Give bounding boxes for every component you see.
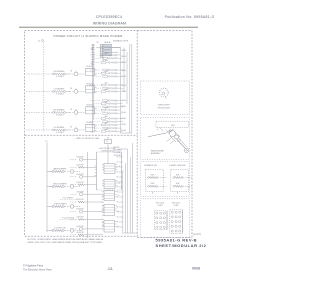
svg-text:W: W bbox=[117, 162, 119, 164]
svg-text:CONN: CONN bbox=[173, 205, 179, 207]
svg-text:4-6B: 4-6B bbox=[105, 129, 108, 131]
svg-text:P 4-6 BK-2: P 4-6 BK-2 bbox=[56, 115, 64, 117]
svg-text:P 4-6 BK-2: P 4-6 BK-2 bbox=[56, 94, 64, 96]
svg-text:DOOR SW: DOOR SW bbox=[76, 182, 84, 184]
svg-text:BK-1A: BK-1A bbox=[122, 111, 126, 114]
svg-text:SW BLOCK: SW BLOCK bbox=[86, 122, 93, 124]
svg-text:ASSEMBLY: ASSEMBLY bbox=[151, 152, 161, 155]
svg-text:[ A-0-5 ]: [ A-0-5 ] bbox=[193, 233, 202, 236]
svg-text:BK-1A: BK-1A bbox=[122, 90, 126, 93]
svg-text:K1: K1 bbox=[107, 137, 109, 139]
svg-text:W: W bbox=[117, 177, 119, 179]
svg-text:0608: 0608 bbox=[192, 266, 200, 270]
svg-text:4-6B: 4-6B bbox=[105, 123, 108, 125]
svg-text:CONV ELEMENT: CONV ELEMENT bbox=[53, 203, 66, 205]
svg-text:CONN: CONN bbox=[158, 205, 164, 207]
svg-text:POWER CIRCUIT (1 SHOWN) MADE P: POWER CIRCUIT (1 SHOWN) MADE POWER bbox=[54, 34, 124, 38]
svg-text:DOOR SW: DOOR SW bbox=[76, 217, 84, 219]
svg-text:W: W bbox=[117, 207, 119, 209]
svg-text:4-6B: 4-6B bbox=[105, 53, 108, 55]
svg-text:2B: 2B bbox=[70, 70, 72, 72]
svg-text:BK-1A: BK-1A bbox=[122, 117, 126, 120]
svg-text:V-VIOLET: V-VIOLET bbox=[114, 155, 122, 157]
svg-text:WIRE. USE ONLY 105°C APPLIANCE: WIRE. USE ONLY 105°C APPLIANCE WIRE OR E… bbox=[28, 241, 103, 244]
svg-text:BK-1A: BK-1A bbox=[122, 49, 126, 52]
svg-text:SURFACE UNITS: SURFACE UNITS bbox=[113, 39, 129, 42]
svg-text:BK-1A: BK-1A bbox=[122, 61, 126, 64]
svg-text:LR SURFACE: LR SURFACE bbox=[54, 126, 65, 129]
svg-text:4-6B: 4-6B bbox=[105, 60, 108, 62]
svg-text:BROIL ELEMENT: BROIL ELEMENT bbox=[53, 183, 66, 185]
svg-text:P/N 316116400: P/N 316116400 bbox=[158, 107, 170, 109]
svg-text:BK-1A: BK-1A bbox=[122, 69, 126, 72]
svg-text:B BK: B BK bbox=[176, 174, 179, 176]
svg-text:W: W bbox=[117, 192, 119, 194]
svg-text:DOOR SW: DOOR SW bbox=[76, 226, 84, 228]
svg-text:J3: J3 bbox=[118, 195, 120, 197]
svg-text:BK-1A: BK-1A bbox=[122, 75, 126, 78]
svg-text:DOOR SW: DOOR SW bbox=[76, 174, 84, 176]
svg-text:SHEET/MODULAR 2/2: SHEET/MODULAR 2/2 bbox=[156, 243, 207, 248]
svg-text:BK-BLACK: BK-BLACK bbox=[114, 149, 123, 152]
svg-text:+ MFD 4.0 UF SR 20 OHM: + MFD 4.0 UF SR 20 OHM bbox=[75, 138, 99, 140]
svg-text:CPLES389EC4: CPLES389EC4 bbox=[96, 15, 122, 19]
svg-text:P8: P8 bbox=[97, 42, 99, 44]
svg-text:DOOR SW: DOOR SW bbox=[76, 164, 84, 166]
svg-text:2B: 2B bbox=[70, 126, 72, 128]
svg-text:DOOR SW: DOOR SW bbox=[76, 199, 84, 201]
svg-text:GY-GRAY: GY-GRAY bbox=[114, 151, 122, 154]
svg-text:RR SURFACE: RR SURFACE bbox=[54, 109, 66, 112]
svg-text:W: W bbox=[117, 202, 119, 204]
svg-text:B BK: B BK bbox=[151, 183, 154, 185]
svg-text:© Frigidaire Parts: © Frigidaire Parts bbox=[23, 264, 44, 268]
svg-text:P 4-6 BK-2: P 4-6 BK-2 bbox=[56, 132, 64, 134]
svg-text:OVEN LIGHT: OVEN LIGHT bbox=[158, 105, 171, 107]
svg-text:BAKE BURNER: BAKE BURNER bbox=[151, 149, 165, 152]
svg-text:Publication No: 5995A81-G: Publication No: 5995A81-G bbox=[165, 15, 215, 19]
svg-text:4-6B: 4-6B bbox=[105, 83, 108, 85]
svg-text:BK-1A: BK-1A bbox=[122, 99, 126, 102]
svg-text:W: W bbox=[117, 222, 119, 224]
svg-text:SW BLOCK: SW BLOCK bbox=[86, 105, 93, 107]
svg-text:The Electrolux Home Parts: The Electrolux Home Parts bbox=[23, 268, 52, 271]
svg-text:B BK: B BK bbox=[151, 174, 154, 176]
svg-text:W: W bbox=[117, 172, 119, 174]
svg-text:BK-1A: BK-1A bbox=[122, 123, 126, 126]
svg-text:W: W bbox=[117, 157, 119, 159]
svg-text:2B: 2B bbox=[70, 88, 72, 90]
svg-text:4-6B: 4-6B bbox=[105, 108, 108, 110]
svg-text:RF SURFACE: RF SURFACE bbox=[54, 70, 66, 73]
svg-text:4-6B: 4-6B bbox=[105, 89, 108, 91]
svg-text:BK-1A: BK-1A bbox=[122, 105, 126, 108]
svg-text:2B: 2B bbox=[70, 109, 72, 111]
svg-text:LOCK MOTOR: LOCK MOTOR bbox=[54, 227, 66, 229]
svg-text:BK-1A: BK-1A bbox=[122, 129, 126, 132]
svg-text:4-6B: 4-6B bbox=[105, 116, 108, 118]
svg-text:DOOR SW: DOOR SW bbox=[76, 191, 84, 193]
svg-text:N: N bbox=[106, 141, 108, 143]
svg-text:DOOR SW: DOOR SW bbox=[76, 232, 84, 234]
svg-text:DOOR SW: DOOR SW bbox=[76, 157, 84, 159]
svg-text:P2: P2 bbox=[119, 183, 121, 185]
svg-text:ASM: ASM bbox=[171, 124, 175, 127]
svg-text:BAKE ELEMENT: BAKE ELEMENT bbox=[54, 167, 67, 170]
svg-text:W: W bbox=[117, 187, 119, 189]
svg-text:4-6B: 4-6B bbox=[105, 101, 108, 103]
svg-text:SURFACE SW: SURFACE SW bbox=[144, 164, 157, 167]
svg-text:SW BLOCK: SW BLOCK bbox=[86, 66, 93, 68]
svg-text:5995A81-G REV-B: 5995A81-G REV-B bbox=[156, 238, 198, 243]
svg-text:4-6B: 4-6B bbox=[105, 71, 108, 73]
svg-text:BK-1A: BK-1A bbox=[122, 84, 126, 87]
svg-text:W: W bbox=[117, 197, 119, 199]
svg-text:L1: L1 bbox=[38, 41, 41, 43]
svg-text:W: W bbox=[117, 217, 119, 219]
svg-text:-13-: -13- bbox=[107, 267, 114, 271]
svg-text:NOTICE: COMPONENT LEAD WIRES: NOTICE: COMPONENT LEAD WIRES MUST BE REP… bbox=[28, 238, 104, 241]
svg-text:SW BLOCK: SW BLOCK bbox=[86, 84, 93, 86]
svg-text:P 4-6 BK-2: P 4-6 BK-2 bbox=[56, 76, 64, 78]
svg-text:1A 1B 2A: 1A 1B 2A bbox=[104, 41, 110, 44]
svg-text:LOWER OVEN SW: LOWER OVEN SW bbox=[169, 165, 186, 167]
svg-text:DOOR SW: DOOR SW bbox=[76, 209, 84, 211]
svg-text:BK-1A: BK-1A bbox=[122, 55, 126, 58]
svg-text:WIRING DIAGRAM: WIRING DIAGRAM bbox=[93, 22, 126, 26]
svg-text:LF SURFACE: LF SURFACE bbox=[54, 88, 65, 91]
svg-text:B BK: B BK bbox=[176, 183, 179, 185]
